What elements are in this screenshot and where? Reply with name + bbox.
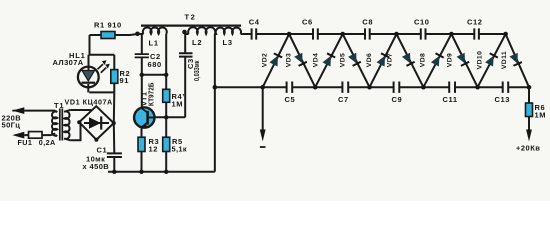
svg-text:C9: C9	[392, 95, 403, 104]
transistor VT1 emitter wire	[141, 128, 143, 138]
inductor L2	[188, 27, 215, 34]
svg-text:FU1: FU1	[18, 138, 33, 147]
svg-text:50Гц: 50Гц	[2, 121, 21, 130]
inductor L1	[143, 28, 167, 34]
svg-text:L3: L3	[223, 38, 233, 47]
wire (R2 drop)	[113, 55, 115, 70]
svg-text:C4: C4	[249, 17, 260, 26]
svg-text:C10: C10	[414, 17, 430, 26]
resistor R1	[101, 32, 115, 39]
diode VD3 symbol	[294, 53, 307, 66]
diode VD2	[263, 34, 289, 87]
svg-text:VT1: VT1	[142, 92, 149, 106]
wire	[165, 117, 167, 137]
ground rail	[108, 171, 215, 173]
diode VD7	[397, 34, 424, 87]
svg-text:12: 12	[149, 145, 159, 154]
diode VD10 symbol	[485, 53, 498, 66]
capacitor C7	[342, 82, 348, 93]
svg-text:91: 91	[120, 76, 130, 85]
wire	[138, 33, 144, 35]
diode VD8	[423, 34, 451, 87]
capacitor C1	[107, 153, 122, 157]
LED HL1	[78, 67, 99, 88]
transformer T2 core	[141, 25, 241, 27]
svg-text:T2: T2	[185, 13, 197, 22]
capacitor C10	[421, 28, 426, 39]
wire + output arrow	[528, 117, 530, 131]
resistor R6	[526, 103, 533, 117]
diode VD4 symbol	[322, 53, 335, 66]
wire (center tap column)	[214, 87, 216, 172]
diode VD4	[315, 34, 343, 87]
resistor R3	[138, 137, 145, 151]
svg-text:C7: C7	[338, 95, 349, 104]
capacitor C12	[474, 28, 479, 39]
output minus arrow	[262, 87, 264, 130]
diode VD7 symbol	[402, 53, 415, 66]
svg-text:0,2А: 0,2А	[39, 138, 56, 147]
diode VD11 symbol	[509, 53, 521, 66]
capacitor C13	[503, 82, 509, 93]
diode VD3	[289, 34, 315, 87]
svg-text:АЛ307А: АЛ307А	[53, 58, 84, 67]
node (L2 start dot)	[182, 30, 187, 35]
svg-text:C12: C12	[467, 17, 483, 26]
svg-text:L2: L2	[192, 38, 202, 47]
svg-text:+20Кв: +20Кв	[516, 144, 540, 153]
diode VD5 symbol	[348, 53, 361, 66]
capacitor C6	[313, 28, 318, 39]
svg-text:C5: C5	[285, 95, 296, 104]
wire	[184, 57, 186, 118]
wire	[165, 75, 167, 90]
bridge rectifier VD1	[79, 106, 114, 140]
svg-text:VD1 КЦ407А: VD1 КЦ407А	[65, 97, 113, 106]
svg-text:КТ972Б: КТ972Б	[149, 83, 156, 107]
wire	[115, 34, 138, 35]
svg-text:5,1к: 5,1к	[172, 145, 187, 154]
node dots ladder bottom	[260, 85, 265, 90]
node (collector junction dot)	[140, 73, 144, 77]
transformer T1 core	[60, 109, 63, 141]
resistor R4	[163, 89, 170, 102]
wire	[184, 33, 186, 53]
wire	[214, 34, 216, 87]
capacitor C4	[252, 28, 257, 39]
wire	[141, 152, 143, 172]
svg-text:х 450В: х 450В	[83, 162, 110, 171]
node (R4 top junction dot)	[164, 73, 168, 77]
fuse FU1	[29, 132, 43, 139]
capacitor C11	[449, 82, 455, 93]
svg-text:T1: T1	[54, 101, 64, 110]
svg-text:L1: L1	[149, 39, 159, 48]
svg-text:C13: C13	[495, 95, 511, 104]
mains input arrows	[12, 110, 24, 112]
wire	[165, 152, 167, 172]
diode VD9 symbol	[456, 53, 469, 66]
wire (tank bottom)	[142, 74, 166, 76]
capacitor C5	[287, 82, 293, 93]
capacitor C9	[394, 82, 400, 93]
diode VD6 symbol	[376, 53, 389, 66]
wire (DC+ column)	[113, 92, 116, 153]
transformer T1 secondary	[64, 110, 70, 140]
svg-text:C8: C8	[362, 17, 373, 26]
svg-text:R1 910: R1 910	[94, 21, 122, 30]
wire	[141, 34, 143, 54]
wire	[113, 157, 115, 172]
diode VD2 symbol	[269, 53, 282, 66]
wire	[90, 34, 102, 36]
svg-text:680: 680	[148, 60, 162, 69]
node (ladder return junction dot)	[213, 85, 218, 90]
svg-text:1М: 1М	[172, 100, 184, 109]
ladder bottom rail	[215, 86, 529, 88]
diode VD10	[478, 34, 506, 87]
wire (LED bottom join)	[89, 91, 114, 93]
svg-text:0,033мк: 0,033мк	[194, 60, 201, 81]
capacitor C2	[135, 54, 149, 57]
capacitor C3	[179, 53, 193, 56]
wire	[528, 87, 530, 103]
svg-text:C6: C6	[302, 17, 313, 26]
diode VD9	[451, 34, 477, 87]
wire	[141, 57, 143, 74]
wire	[185, 33, 189, 34]
capacitor C8	[365, 28, 370, 39]
diode VD5	[343, 34, 370, 87]
transistor VT1 collector wire	[141, 75, 143, 108]
inductor L3	[215, 28, 241, 34]
svg-text:1М: 1М	[535, 111, 547, 120]
diode VD8 symbol	[431, 53, 444, 66]
resistor R5	[163, 137, 170, 151]
wire	[165, 34, 167, 75]
transistor VT1	[134, 107, 154, 127]
diode VD11	[506, 34, 529, 87]
wire	[113, 83, 115, 92]
wire	[70, 109, 91, 111]
base wire	[155, 116, 186, 118]
wire	[165, 102, 167, 117]
node (base/R4/R5 junction dot)	[164, 115, 168, 119]
node dots ladder top	[287, 32, 292, 37]
transformer T1 primary	[52, 111, 57, 137]
ladder top rail	[241, 33, 506, 35]
svg-text:C1: C1	[97, 146, 108, 155]
diode VD6	[370, 34, 397, 87]
svg-text:C11: C11	[443, 95, 458, 104]
wire (LED drop from R1)	[90, 35, 115, 55]
wire	[70, 122, 80, 140]
node A (R1/L1/C2 junction dot)	[135, 32, 140, 37]
LED arrows	[98, 64, 107, 73]
resistor R2	[111, 70, 118, 84]
